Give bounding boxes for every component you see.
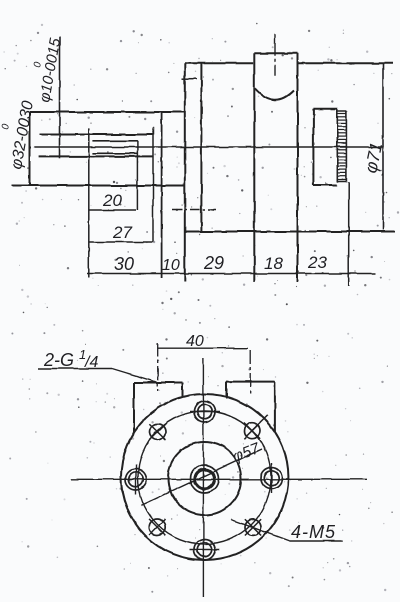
svg-text:27: 27: [112, 223, 132, 242]
svg-text:/4: /4: [84, 354, 98, 371]
svg-text:29: 29: [203, 253, 224, 273]
svg-text:2-G: 2-G: [43, 350, 74, 370]
svg-text:40: 40: [186, 333, 204, 350]
svg-text:10: 10: [162, 257, 180, 274]
svg-text:18: 18: [264, 254, 283, 273]
svg-text:20: 20: [102, 191, 122, 210]
svg-text:23: 23: [307, 253, 327, 272]
svg-text:4-M5: 4-M5: [291, 522, 336, 542]
svg-text:30: 30: [114, 254, 134, 274]
